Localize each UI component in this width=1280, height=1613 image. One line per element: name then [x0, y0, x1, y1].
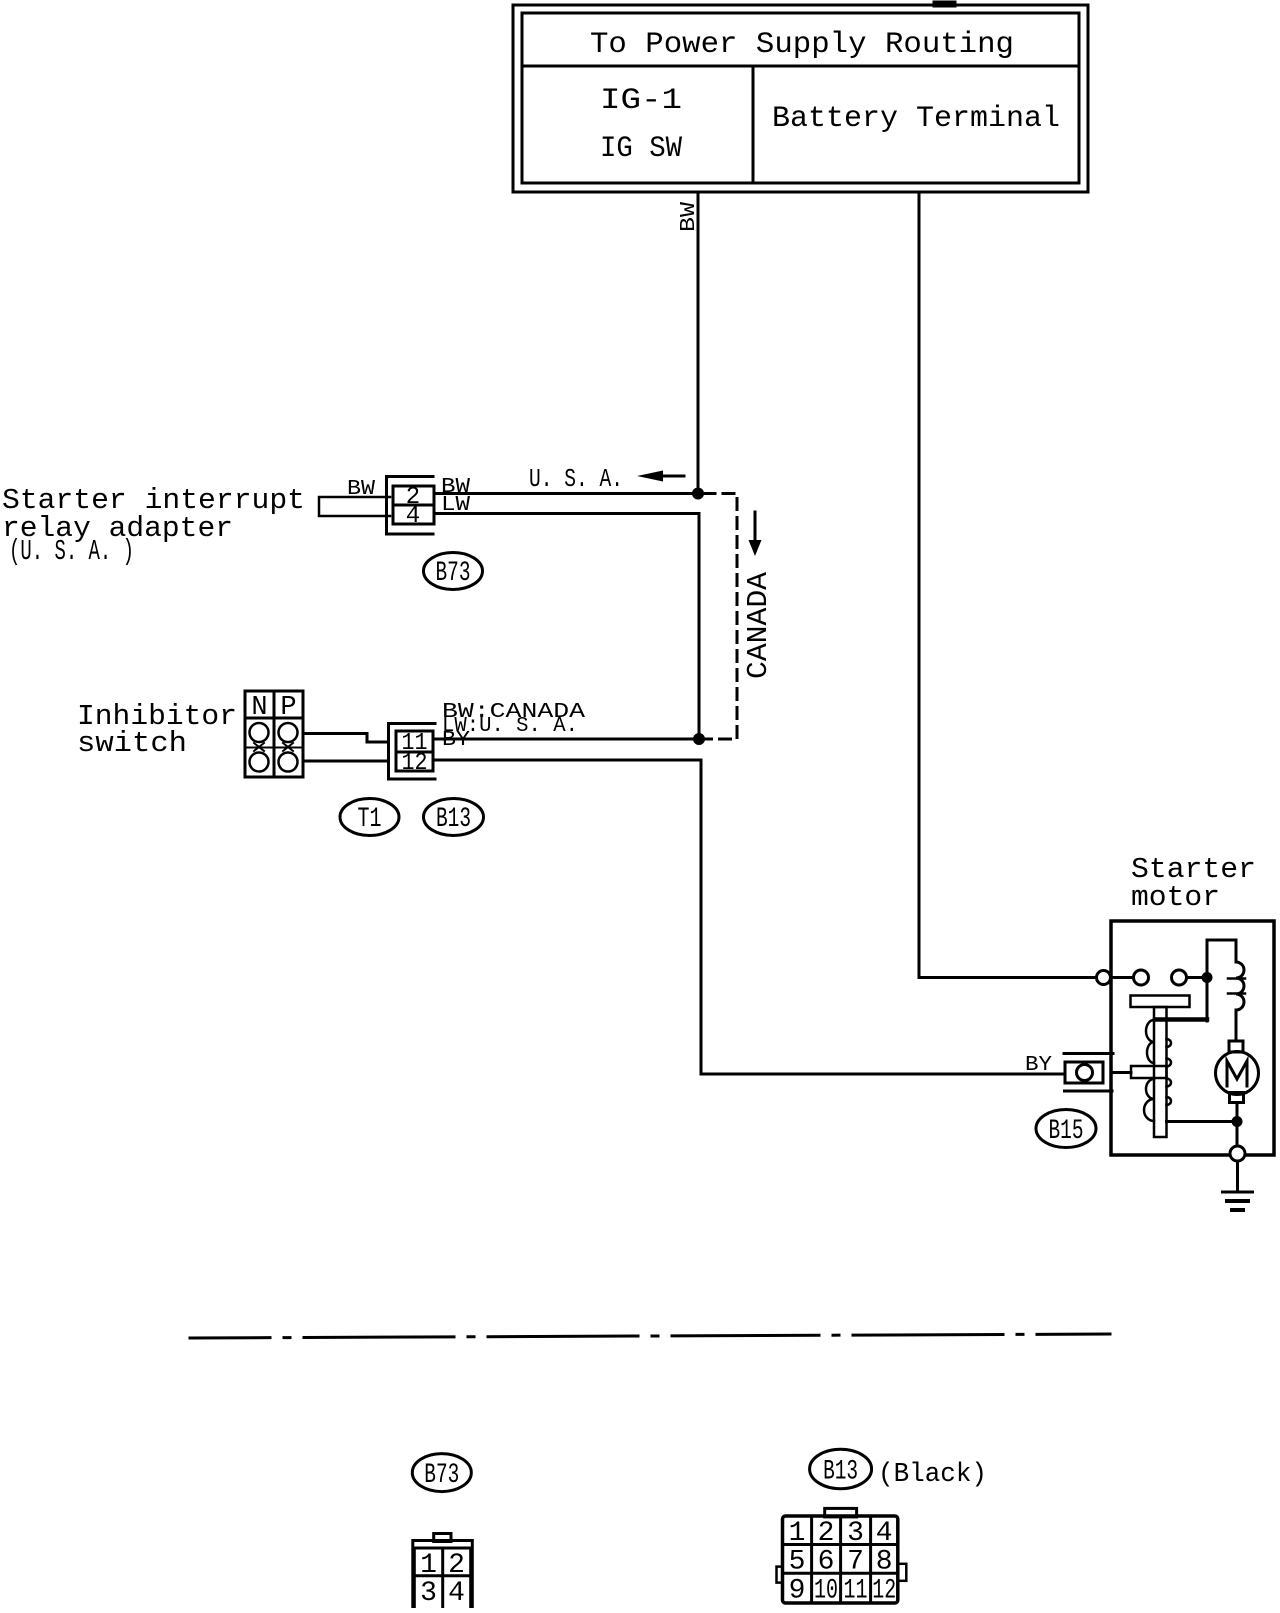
- wire BW vertical from IG-1: [697, 192, 700, 491]
- inhibitor switch contact circles: [250, 723, 269, 742]
- connector B15 plug: [1065, 1062, 1103, 1083]
- connector ellipse B73 bottom: [412, 1454, 471, 1492]
- svg-text:IG-1: IG-1: [600, 84, 682, 118]
- solenoid contact bar: [1131, 1066, 1167, 1078]
- svg-text:BY: BY: [1025, 1054, 1052, 1077]
- connector B73 pin box: [393, 486, 434, 524]
- wire loop to field coil: [1207, 940, 1236, 972]
- wire contact to node: [1187, 976, 1203, 979]
- svg-text:T1: T1: [358, 804, 382, 835]
- connector B13 pin box: [396, 731, 433, 771]
- solenoid winding lower arcs: [1144, 1079, 1154, 1121]
- connector ellipse T1: [340, 799, 399, 836]
- connector ellipse B13: [424, 799, 484, 836]
- wire BY from pin 12 to starter motor: [433, 760, 1064, 1074]
- solenoid contact circle right: [1172, 970, 1187, 985]
- svg-text:(Black): (Black): [878, 1460, 987, 1490]
- connector ellipse B15: [1036, 1110, 1096, 1148]
- wire to ground: [1236, 1161, 1239, 1191]
- svg-text:B13: B13: [436, 804, 471, 835]
- wire into contact: [1111, 976, 1134, 979]
- cell divider line: [752, 66, 755, 183]
- svg-text:P: P: [280, 693, 296, 723]
- wire battery terminal horizontal to starter motor: [919, 976, 1096, 979]
- svg-text:10: 10: [814, 1576, 838, 1607]
- svg-text:2: 2: [448, 1550, 465, 1581]
- svg-text:IG SW: IG SW: [600, 132, 682, 166]
- relay adapter wire stub: [319, 497, 390, 516]
- svg-text:12: 12: [872, 1576, 896, 1607]
- svg-text:4: 4: [448, 1578, 465, 1608]
- junction node motor feed: [1202, 972, 1213, 983]
- connector B13 pin layout tab: [825, 1508, 857, 1517]
- svg-text:4: 4: [406, 503, 420, 530]
- svg-text:BW: BW: [678, 202, 701, 232]
- svg-text:8: 8: [876, 1547, 893, 1578]
- arrow U.S.A. pointing left: [659, 475, 684, 478]
- power supply routing box outer frame: [513, 5, 1088, 192]
- field coil: [1236, 962, 1244, 1010]
- motor M bottom terminal: [1230, 1093, 1244, 1103]
- svg-text:9: 9: [789, 1576, 806, 1607]
- connector B13 pin layout body: [783, 1516, 898, 1603]
- svg-text:motor: motor: [1131, 881, 1220, 914]
- svg-text:1: 1: [420, 1550, 437, 1581]
- terminal circle at box bottom: [1230, 1146, 1245, 1161]
- wire battery terminal vertical: [918, 192, 921, 978]
- junction node A: [692, 488, 704, 500]
- scan mark: [936, 1, 953, 8]
- wire BY into contact bar: [1113, 1071, 1131, 1074]
- wire LW from pin 4: [434, 514, 699, 740]
- solenoid plunger T bar: [1131, 996, 1190, 1008]
- solenoid contact circle left: [1134, 970, 1149, 985]
- motor M top terminal: [1229, 1041, 1243, 1052]
- section separator dash-dot line: [190, 1334, 1110, 1338]
- wire from pin 11 to junction B: [433, 738, 699, 741]
- ground: [1223, 1191, 1253, 1194]
- svg-text:6: 6: [818, 1547, 835, 1578]
- arrow CANADA pointing down: [754, 512, 757, 540]
- connector B15 bracket: [1064, 1052, 1113, 1055]
- wire node to solenoid rod: [1167, 1120, 1238, 1123]
- connector B73 pin layout body: [413, 1541, 473, 1611]
- svg-text:11: 11: [844, 1576, 868, 1607]
- svg-text:CANADA: CANADA: [742, 571, 775, 679]
- svg-text:To Power Supply Routing: To Power Supply Routing: [590, 28, 1014, 62]
- wire junction to solenoid winding: [1206, 983, 1209, 1021]
- header divider line: [522, 65, 1079, 68]
- svg-text:switch: switch: [77, 727, 187, 760]
- svg-text:2: 2: [818, 1518, 835, 1549]
- wire inhibitor to pin 12: [303, 760, 388, 763]
- svg-text:3: 3: [847, 1518, 864, 1549]
- motor M circle: [1216, 1052, 1259, 1095]
- svg-text:5: 5: [789, 1547, 806, 1578]
- svg-text:7: 7: [847, 1547, 864, 1578]
- svg-text:3: 3: [420, 1578, 437, 1608]
- dashed wire CANADA routing: [704, 494, 737, 740]
- junction node under motor: [1232, 1116, 1243, 1127]
- terminal circle outside box: [1097, 971, 1111, 985]
- svg-text:4: 4: [876, 1518, 893, 1549]
- svg-text:12: 12: [402, 750, 428, 777]
- wire BW from pin 2 to junction: [434, 492, 698, 495]
- starter motor box: [1111, 921, 1274, 1155]
- wire node to ground terminal: [1236, 1127, 1239, 1146]
- connector ellipse B13 bottom: [810, 1449, 872, 1488]
- wire inhibitor P to pin 11: [303, 734, 388, 743]
- svg-text:B73: B73: [436, 558, 471, 589]
- connector B73 outer bracket: [387, 477, 434, 535]
- connector B13 side tabs: [777, 1567, 783, 1583]
- solenoid plunger rod: [1154, 1007, 1167, 1137]
- svg-text:B13: B13: [823, 1457, 858, 1488]
- connector ellipse B73: [424, 553, 483, 590]
- connector B73 pin layout tab: [434, 1534, 451, 1542]
- inhibitor switch body: [245, 691, 303, 777]
- connector B13 outer bracket: [389, 724, 436, 780]
- svg-text:U. S. A.: U. S. A.: [529, 464, 623, 494]
- svg-text:1: 1: [789, 1518, 806, 1549]
- svg-text:B15: B15: [1049, 1116, 1084, 1147]
- svg-text:(U. S. A. ): (U. S. A. ): [9, 535, 134, 568]
- svg-text:BW: BW: [347, 478, 375, 501]
- solenoid winding upper arcs: [1146, 1020, 1154, 1063]
- svg-text:N: N: [251, 693, 267, 723]
- svg-text:B73: B73: [424, 1460, 459, 1491]
- svg-text:Battery Terminal: Battery Terminal: [772, 102, 1060, 136]
- contact x marks: [254, 743, 264, 751]
- junction node B: [693, 733, 705, 745]
- wire motor to node: [1236, 1103, 1239, 1117]
- power supply routing box inner frame: [522, 13, 1079, 183]
- wire coil to motor: [1235, 1010, 1238, 1041]
